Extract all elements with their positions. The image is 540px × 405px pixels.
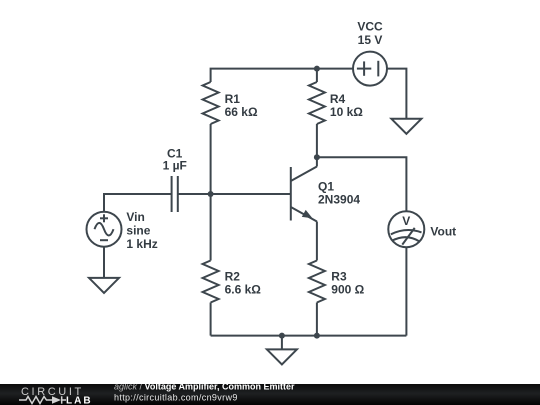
- node: base junction (C1/R1/R2/Q1 base): [208, 191, 214, 197]
- svg-text:R2: R2: [225, 270, 241, 284]
- svg-text:VCC: VCC: [357, 20, 383, 34]
- node: bottom rail R3 junction: [314, 333, 320, 339]
- svg-text:R3: R3: [331, 270, 347, 284]
- svg-text:Vin: Vin: [126, 210, 144, 224]
- wire: C1 right plate to base node: [178, 193, 211, 195]
- svg-text:2N3904: 2N3904: [318, 193, 360, 207]
- wire: bottom rail: [211, 335, 407, 337]
- voltmeter Vout: [388, 211, 424, 247]
- resistor R1: [203, 82, 219, 124]
- svg-text:15 V: 15 V: [358, 33, 383, 47]
- transistor Q1 (2N3904 NPN): [291, 157, 317, 221]
- ground: bottom center: [267, 349, 297, 364]
- logo resistor-diode squiggle: [19, 396, 66, 403]
- wire: Vin bottom to ground stub: [103, 247, 105, 278]
- svg-text:Q1: Q1: [318, 180, 334, 194]
- ground: below Vin: [89, 278, 119, 293]
- node: collector junction: [314, 154, 320, 160]
- wire: base node to Q1 base: [211, 193, 291, 195]
- svg-text:1 µF: 1 µF: [163, 159, 187, 173]
- svg-text:1 kHz: 1 kHz: [126, 237, 157, 251]
- wire: R1 bottom to base node: [210, 124, 212, 194]
- wire: Q1 emitter to R3 top: [316, 222, 318, 261]
- resistor R2: [203, 194, 219, 336]
- wire: ground stub on bottom rail: [281, 336, 283, 350]
- wire: collector node to voltmeter top: [317, 157, 407, 211]
- svg-text:LAB: LAB: [66, 396, 93, 405]
- capacitor C1: [172, 176, 178, 212]
- svg-text:Vout: Vout: [430, 224, 456, 238]
- resistor R3: [309, 261, 325, 336]
- svg-text:V: V: [402, 214, 410, 228]
- node: bottom rail ground junction: [279, 333, 285, 339]
- svg-text:http://circuitlab.com/cn9vrw9: http://circuitlab.com/cn9vrw9: [114, 393, 238, 403]
- svg-text:66 kΩ: 66 kΩ: [225, 105, 258, 119]
- svg-text:sine: sine: [126, 224, 150, 238]
- wire: VCC right terminal to ground stub: [387, 69, 406, 119]
- ground: below VCC: [391, 119, 421, 134]
- voltage source VCC (15 V): [353, 52, 387, 86]
- resistor R4: [309, 69, 325, 158]
- svg-text:R4: R4: [330, 92, 346, 106]
- svg-text:R1: R1: [225, 92, 241, 106]
- svg-text:aglick / Voltage Amplifier, Co: aglick / Voltage Amplifier, Common Emitt…: [114, 384, 295, 391]
- wire: Vin top to C1 left plate: [104, 194, 172, 212]
- footer bar: [0, 384, 540, 405]
- svg-text:10 kΩ: 10 kΩ: [330, 105, 363, 119]
- wire: top rail from R1 top to VCC left terminal: [211, 69, 353, 82]
- svg-text:6.6 kΩ: 6.6 kΩ: [225, 283, 262, 297]
- wire: voltmeter bottom to bottom rail: [405, 247, 407, 335]
- svg-text:900 Ω: 900 Ω: [331, 283, 364, 297]
- node: top rail / R4 junction: [314, 66, 320, 72]
- voltage source Vin (sine 1 kHz): [87, 212, 122, 247]
